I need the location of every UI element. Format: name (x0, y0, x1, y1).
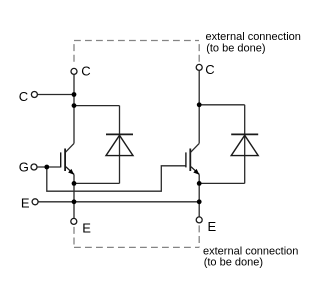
wire collector lead Q1 (66, 143, 75, 152)
junction node E1 rail (72, 199, 77, 204)
svg-text:E: E (21, 196, 30, 211)
svg-text:external connection: external connection (206, 31, 301, 43)
terminal E bottom-right (196, 217, 202, 223)
wire emitter vertical Q1 (73, 174, 75, 201)
junction node E1 emitter (72, 181, 77, 186)
svg-text:C: C (19, 89, 28, 104)
wire C2 collector vertical right (198, 71, 200, 144)
junction node E2 emitter (197, 181, 202, 186)
wire E rail (38, 201, 199, 203)
terminal E bottom-left (71, 218, 77, 224)
wire E node to bottom E terminal left (73, 202, 75, 218)
terminal G left side (31, 164, 37, 170)
junction node C1/C side (72, 92, 77, 97)
wire E node to bottom E terminal right (198, 202, 200, 217)
wire collector lead Q2 (191, 143, 200, 152)
terminal C top-left (71, 68, 77, 74)
dashed external connection top horizontal (74, 40, 199, 42)
junction node E2 rail (197, 199, 202, 204)
diode D2 (231, 134, 258, 155)
junction node gate split (44, 165, 49, 170)
transistor Q2 (right IGBT) (186, 149, 200, 175)
dashed external connection bottom-left vertical (73, 227, 75, 248)
dashed external connection bottom horizontal (74, 246, 199, 248)
wire diode D2 anode to emitter node (199, 182, 245, 184)
svg-text:E: E (208, 219, 217, 234)
dashed external connection top-right vertical (198, 41, 200, 65)
svg-text:C: C (205, 62, 214, 77)
dashed external connection top-left vertical (73, 41, 75, 66)
terminal C left side (31, 92, 37, 98)
svg-text:E: E (82, 220, 91, 235)
terminal E left side (32, 199, 38, 205)
svg-text:(to be done): (to be done) (206, 43, 265, 55)
wire diode branch top left (74, 105, 120, 107)
wire gate G terminal to Q1 (37, 166, 61, 168)
wire diode D2 vertical (244, 105, 246, 184)
dashed external connection bottom-right vertical (198, 225, 200, 247)
svg-text:G: G (19, 160, 29, 175)
svg-text:external connection: external connection (203, 245, 298, 257)
transistor Q1 (left IGBT) (61, 149, 74, 175)
wire diode branch top right (199, 104, 245, 106)
wire emitter vertical Q2 (198, 174, 200, 201)
svg-text:(to be done): (to be done) (204, 257, 263, 269)
svg-text:C: C (81, 63, 90, 78)
wire diode D1 anode to emitter node (74, 182, 120, 184)
wire diode D1 vertical (119, 106, 121, 184)
diode D1 (106, 134, 133, 155)
junction node C2/diode branch (197, 102, 202, 107)
terminal C top-right (196, 64, 202, 70)
wire C1 collector vertical left (73, 75, 75, 144)
junction node C1/diode branch (72, 103, 77, 108)
wire gate routing to Q2 (47, 166, 186, 191)
wire C terminal to node (38, 94, 74, 96)
